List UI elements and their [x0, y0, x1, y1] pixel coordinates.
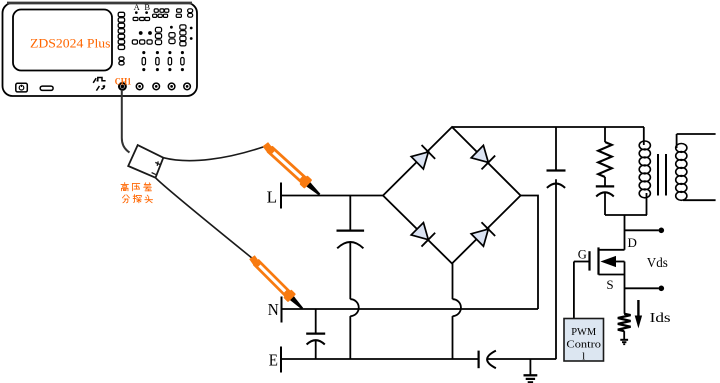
svg-text:CH1: CH1	[115, 76, 132, 87]
svg-text:Ids: Ids	[650, 310, 671, 325]
svg-text:Vds: Vds	[647, 255, 668, 270]
svg-text:B: B	[144, 2, 150, 12]
svg-text:D: D	[628, 235, 637, 250]
svg-text:A: A	[134, 2, 141, 12]
svg-text:Contro: Contro	[566, 339, 601, 351]
svg-text:N: N	[268, 300, 279, 319]
svg-text:L: L	[267, 187, 278, 206]
svg-text:l: l	[582, 350, 585, 362]
svg-text:G: G	[578, 247, 587, 261]
svg-text:E: E	[269, 350, 278, 369]
svg-text:ZDS2024 Plus: ZDS2024 Plus	[30, 37, 111, 51]
svg-text:PWM: PWM	[571, 326, 596, 338]
svg-text:S: S	[606, 277, 613, 292]
